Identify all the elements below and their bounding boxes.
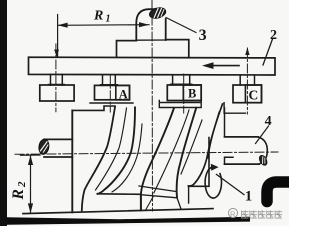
svg-text:1: 1	[106, 14, 111, 25]
svg-text:R: R	[10, 189, 27, 200]
svg-text:C: C	[249, 88, 259, 103]
svg-text:1: 1	[245, 189, 253, 205]
svg-text:R: R	[230, 210, 236, 219]
svg-text:4: 4	[265, 114, 272, 129]
svg-text:R: R	[93, 9, 103, 24]
svg-text:A: A	[119, 88, 128, 102]
svg-text:B: B	[188, 87, 196, 101]
svg-text:2: 2	[16, 181, 28, 188]
svg-text:2: 2	[270, 28, 277, 43]
svg-text:3: 3	[199, 27, 207, 44]
